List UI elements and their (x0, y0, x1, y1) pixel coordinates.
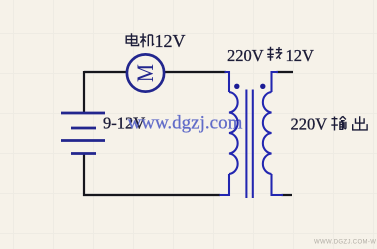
wire bottom-left vertical (battery - down) (83, 154, 85, 197)
wire top-left horizontal (motor to battery branch) (84, 71, 127, 73)
wire left vertical (to battery +) (83, 71, 85, 114)
wire bottom-right output terminal (282, 194, 293, 196)
primary bottom lead (220, 174, 230, 195)
svg-text:220V: 220V (227, 46, 264, 65)
glyph 出 (353, 116, 367, 130)
secondary bottom lead (272, 174, 284, 195)
svg-text:WWW.DGZJ.COM-W: WWW.DGZJ.COM-W (314, 240, 376, 246)
svg-text:www.dgzj.com: www.dgzj.com (128, 113, 243, 134)
glyph 机 (140, 33, 154, 47)
primary winding (4 arcs bulging right) (229, 92, 238, 174)
label 电机12V (motor 12V) (126, 33, 154, 47)
glyph 输 (331, 116, 346, 130)
svg-text:12V: 12V (286, 46, 315, 65)
glyph 电 (126, 33, 138, 45)
glyph 转 (267, 47, 282, 61)
wire top-right output terminal (277, 71, 294, 73)
svg-text:220V: 220V (291, 115, 328, 134)
transformer T1 (220, 72, 284, 198)
transformer core line 2 (252, 90, 254, 199)
svg-text:M: M (133, 64, 158, 82)
primary top lead (225, 72, 230, 92)
secondary winding (4 arcs bulging left) (263, 92, 272, 174)
wire bottom horizontal (battery to transformer primary) (83, 194, 220, 196)
polarity dot primary (234, 84, 239, 89)
transformer core line 1 (245, 90, 247, 199)
battery short plate 2 (71, 152, 96, 155)
polarity dot secondary (260, 84, 265, 89)
battery long plate 2 (61, 139, 105, 142)
battery B1 (two cells) (61, 113, 105, 154)
wire top-middle horizontal (motor to transformer primary) (165, 71, 227, 73)
battery short plate 1 (71, 127, 96, 130)
secondary top lead (272, 72, 279, 92)
battery long plate 1 (61, 112, 105, 115)
svg-text:12V: 12V (155, 31, 186, 51)
motor M (circle with rotated M) (127, 54, 164, 91)
